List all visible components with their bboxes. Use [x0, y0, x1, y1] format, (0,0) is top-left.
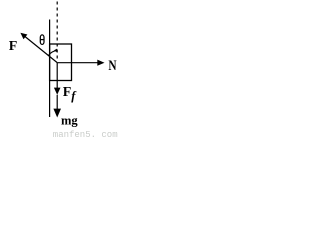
svg-text:F: F	[63, 85, 72, 100]
svg-text:f: f	[71, 89, 77, 103]
normal force N arrow	[57, 60, 104, 66]
dashed reference line	[56, 2, 58, 61]
theta label	[40, 35, 44, 45]
svg-text:manfen5. com: manfen5. com	[53, 130, 118, 139]
block	[50, 44, 72, 81]
svg-text:N: N	[108, 56, 117, 73]
angle arc	[49, 49, 58, 56]
gravity mg arrow	[53, 95, 61, 118]
friction force Ff arrow	[54, 63, 61, 95]
svg-text:mg: mg	[61, 113, 78, 127]
wall	[49, 20, 51, 118]
force F arrow	[20, 33, 57, 63]
svg-text:F: F	[9, 39, 18, 54]
